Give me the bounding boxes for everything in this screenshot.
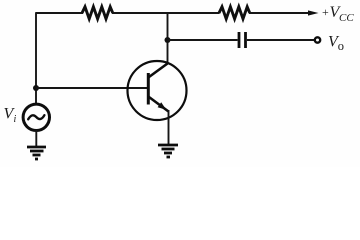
transistor Q1 collector lead	[148, 64, 167, 78]
source Vi sine	[28, 115, 44, 119]
svg-text:CC: CC	[339, 12, 354, 24]
resistor R2	[219, 7, 250, 19]
transistor Q1 circle	[128, 61, 187, 120]
transistor Q1 emitter arrowhead	[158, 102, 167, 110]
transistor Q1 base bar	[147, 73, 150, 105]
wire left vertical	[35, 12, 37, 104]
capacitor C1	[239, 32, 246, 48]
node base junction	[33, 85, 39, 91]
transistor Q1 emitter lead	[148, 97, 168, 112]
label Vo	[328, 33, 344, 53]
wire source to ground	[35, 130, 37, 146]
resistor R1	[82, 7, 113, 19]
wire collector vertical	[167, 12, 169, 64]
terminal Vo open circle	[315, 37, 320, 42]
node collector junction	[165, 37, 171, 43]
wire top-middle horizontal	[112, 12, 220, 14]
label +Vcc	[322, 4, 354, 24]
ground under emitter	[158, 145, 178, 157]
wire to supply arrow	[249, 12, 310, 14]
wire base horizontal	[36, 87, 148, 89]
label Vi	[4, 106, 17, 126]
supply arrowhead	[308, 10, 319, 15]
svg-text:i: i	[14, 114, 17, 125]
wire top-left horizontal	[36, 12, 83, 14]
wire to capacitor	[168, 39, 238, 41]
svg-text:+: +	[322, 5, 329, 19]
ground under Vi	[27, 147, 46, 159]
wire emitter vertical	[168, 110, 170, 144]
svg-text:o: o	[338, 39, 344, 53]
wire capacitor to output	[247, 39, 314, 41]
source Vi circle	[23, 104, 49, 130]
